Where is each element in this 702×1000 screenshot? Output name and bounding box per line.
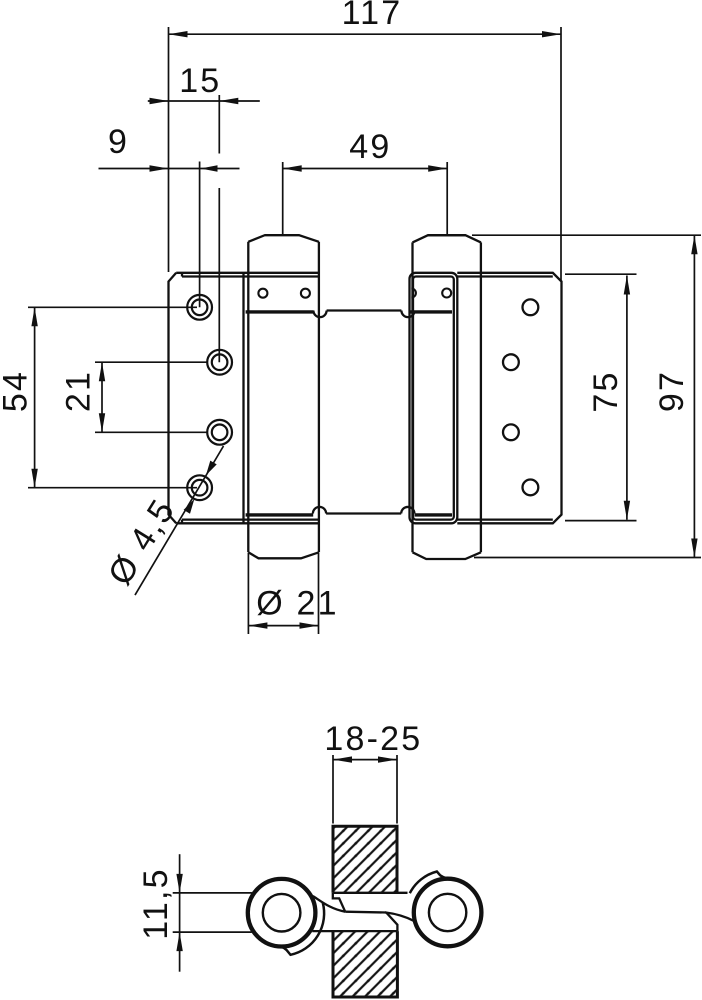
arrow 75 top bbox=[624, 276, 630, 295]
right leaf screw hole 1 bbox=[523, 299, 539, 315]
svg-text:21: 21 bbox=[60, 370, 98, 412]
dimension 54 line bbox=[34, 307, 36, 487]
svg-text:49: 49 bbox=[349, 128, 391, 166]
web bottom edge line bbox=[312, 930, 397, 932]
arrow 9 right bbox=[201, 165, 218, 171]
arrow 21v top bbox=[99, 362, 105, 381]
left leaf screw hole 3 (countersunk) bbox=[207, 420, 232, 445]
left carrier band screw hole b bbox=[301, 289, 310, 298]
leader line dia 4,5 bbox=[135, 446, 224, 595]
dimension 18-25 line bbox=[333, 759, 397, 761]
left carrier band bottom fold edge (thick) bbox=[246, 513, 314, 516]
dimension 21 vertical line bbox=[101, 362, 103, 432]
right barrel bottom cap bbox=[413, 552, 481, 559]
arrow 117 right bbox=[542, 31, 561, 37]
svg-text:18-25: 18-25 bbox=[324, 720, 422, 758]
door panel lower block hatch bbox=[333, 931, 397, 997]
central web top edge with notches bbox=[313, 311, 414, 318]
arrow 15 right bbox=[219, 98, 238, 104]
svg-text:9: 9 bbox=[108, 123, 129, 161]
left leaf screw hole 2 (countersunk) bbox=[207, 350, 232, 375]
web top long edge bbox=[345, 911, 386, 914]
right leaf screw hole 4 bbox=[523, 480, 539, 496]
arrow 11,5 bottom bbox=[176, 932, 182, 951]
arrow 9 left bbox=[150, 165, 169, 171]
dimension dia 21 line bbox=[248, 625, 318, 627]
dimension 9 line bbox=[99, 168, 240, 170]
arrow 18-25 left bbox=[333, 756, 352, 762]
right spring barrel body edges bbox=[413, 242, 481, 552]
dimension 97 line bbox=[693, 235, 695, 557]
right barrel section pin bore bbox=[429, 894, 466, 931]
central web bottom edge with notches bbox=[313, 507, 415, 514]
arrow 97 top bbox=[691, 235, 697, 254]
right carrier band screw hole a (half hidden) bbox=[411, 289, 416, 298]
right barrel section outer bbox=[414, 879, 482, 947]
dimension 21 vertical extension lines bbox=[95, 361, 207, 363]
arrow 49 right bbox=[428, 165, 447, 171]
arrow 75 bottom bbox=[624, 501, 630, 520]
arrow 15 left bbox=[150, 98, 169, 104]
svg-text:97: 97 bbox=[653, 370, 691, 412]
left leaf wrap arc with hook bbox=[281, 902, 325, 954]
door panel upper block hatch bbox=[333, 826, 397, 893]
dimension 9 extension line bbox=[199, 162, 201, 308]
door panel upper block outline bbox=[333, 826, 397, 893]
svg-text:117: 117 bbox=[342, 0, 403, 32]
left carrier band screw hole a bbox=[258, 289, 267, 298]
door bevel notch bbox=[386, 913, 397, 932]
left barrel bottom cap bbox=[248, 552, 319, 558]
svg-text:54: 54 bbox=[0, 370, 35, 412]
right leaf wrap channel outer bbox=[410, 273, 458, 524]
right carrier band fold edge (thick) bbox=[409, 310, 452, 313]
left leaf screw hole 4 (countersunk) bbox=[187, 475, 212, 500]
web top right curve bbox=[385, 912, 415, 921]
svg-text:11,5: 11,5 bbox=[137, 867, 175, 939]
arrow 54 top bbox=[31, 307, 37, 326]
svg-text:Ø 21: Ø 21 bbox=[256, 584, 339, 622]
right carrier band bottom fold edge (thick) bbox=[415, 513, 452, 516]
right barrel top cap bbox=[413, 235, 481, 242]
arrow 11,5 top bbox=[176, 874, 182, 893]
dimension 18-25 extension lines bbox=[173, 755, 397, 972]
left barrel section outer bbox=[248, 879, 316, 947]
arrow dia21 left bbox=[248, 622, 267, 628]
door panel lower block outline bbox=[333, 931, 397, 997]
dimension 117 line bbox=[169, 33, 562, 35]
right leaf wrap arc with hook bbox=[410, 872, 448, 894]
wrap tongue step bbox=[333, 893, 345, 912]
dimension 15 line bbox=[148, 100, 260, 102]
right leaf wrap channel inner bbox=[413, 277, 454, 520]
svg-text:Ø 4,5: Ø 4,5 bbox=[101, 492, 183, 592]
right leaf screw hole 3 bbox=[503, 424, 519, 440]
dimension 97 extension lines bbox=[472, 234, 701, 236]
left carrier band fold edge (thick) bbox=[246, 310, 314, 313]
web S-curve top left bbox=[313, 896, 345, 912]
arrow 117 left bbox=[169, 31, 188, 37]
arrow 97 bottom bbox=[691, 539, 697, 558]
dimension 49 line bbox=[283, 168, 448, 170]
left leaf screw hole 1 (countersunk) bbox=[187, 295, 212, 320]
arrow 18-25 right bbox=[378, 756, 397, 762]
arrow 49 left bbox=[283, 165, 302, 171]
dimension 49 extension lines bbox=[282, 162, 284, 235]
arrow dia21 right bbox=[300, 622, 319, 628]
dimension 11,5 line bbox=[179, 854, 181, 972]
arrow leader upper bbox=[206, 461, 217, 476]
gap top edge line bbox=[333, 892, 408, 894]
dimension 15 extension line bbox=[218, 95, 220, 154]
dimension 117 extension lines bbox=[168, 27, 170, 272]
dimension 54 extension lines bbox=[28, 306, 197, 308]
left barrel top cap bbox=[248, 235, 319, 242]
arrow leader lower bbox=[184, 499, 195, 514]
svg-text:75: 75 bbox=[587, 370, 625, 412]
left spring barrel body edges bbox=[248, 242, 319, 553]
left leaf plate outline bbox=[169, 273, 319, 524]
arrow 21v bottom bbox=[99, 413, 105, 432]
arrow 54 bottom bbox=[31, 469, 37, 488]
right leaf screw hole 2 bbox=[503, 354, 519, 370]
svg-text:15: 15 bbox=[179, 62, 221, 100]
dimension 75 extension lines bbox=[565, 273, 637, 275]
dimension 75 line bbox=[626, 276, 628, 520]
right carrier band screw hole b bbox=[442, 289, 451, 298]
arrowheads bbox=[31, 31, 697, 629]
left barrel section pin bore bbox=[263, 894, 301, 932]
right leaf plate outline bbox=[457, 273, 561, 524]
dimension 11,5 extension lines bbox=[173, 892, 252, 894]
dimension dia 21 extension lines bbox=[247, 553, 249, 634]
